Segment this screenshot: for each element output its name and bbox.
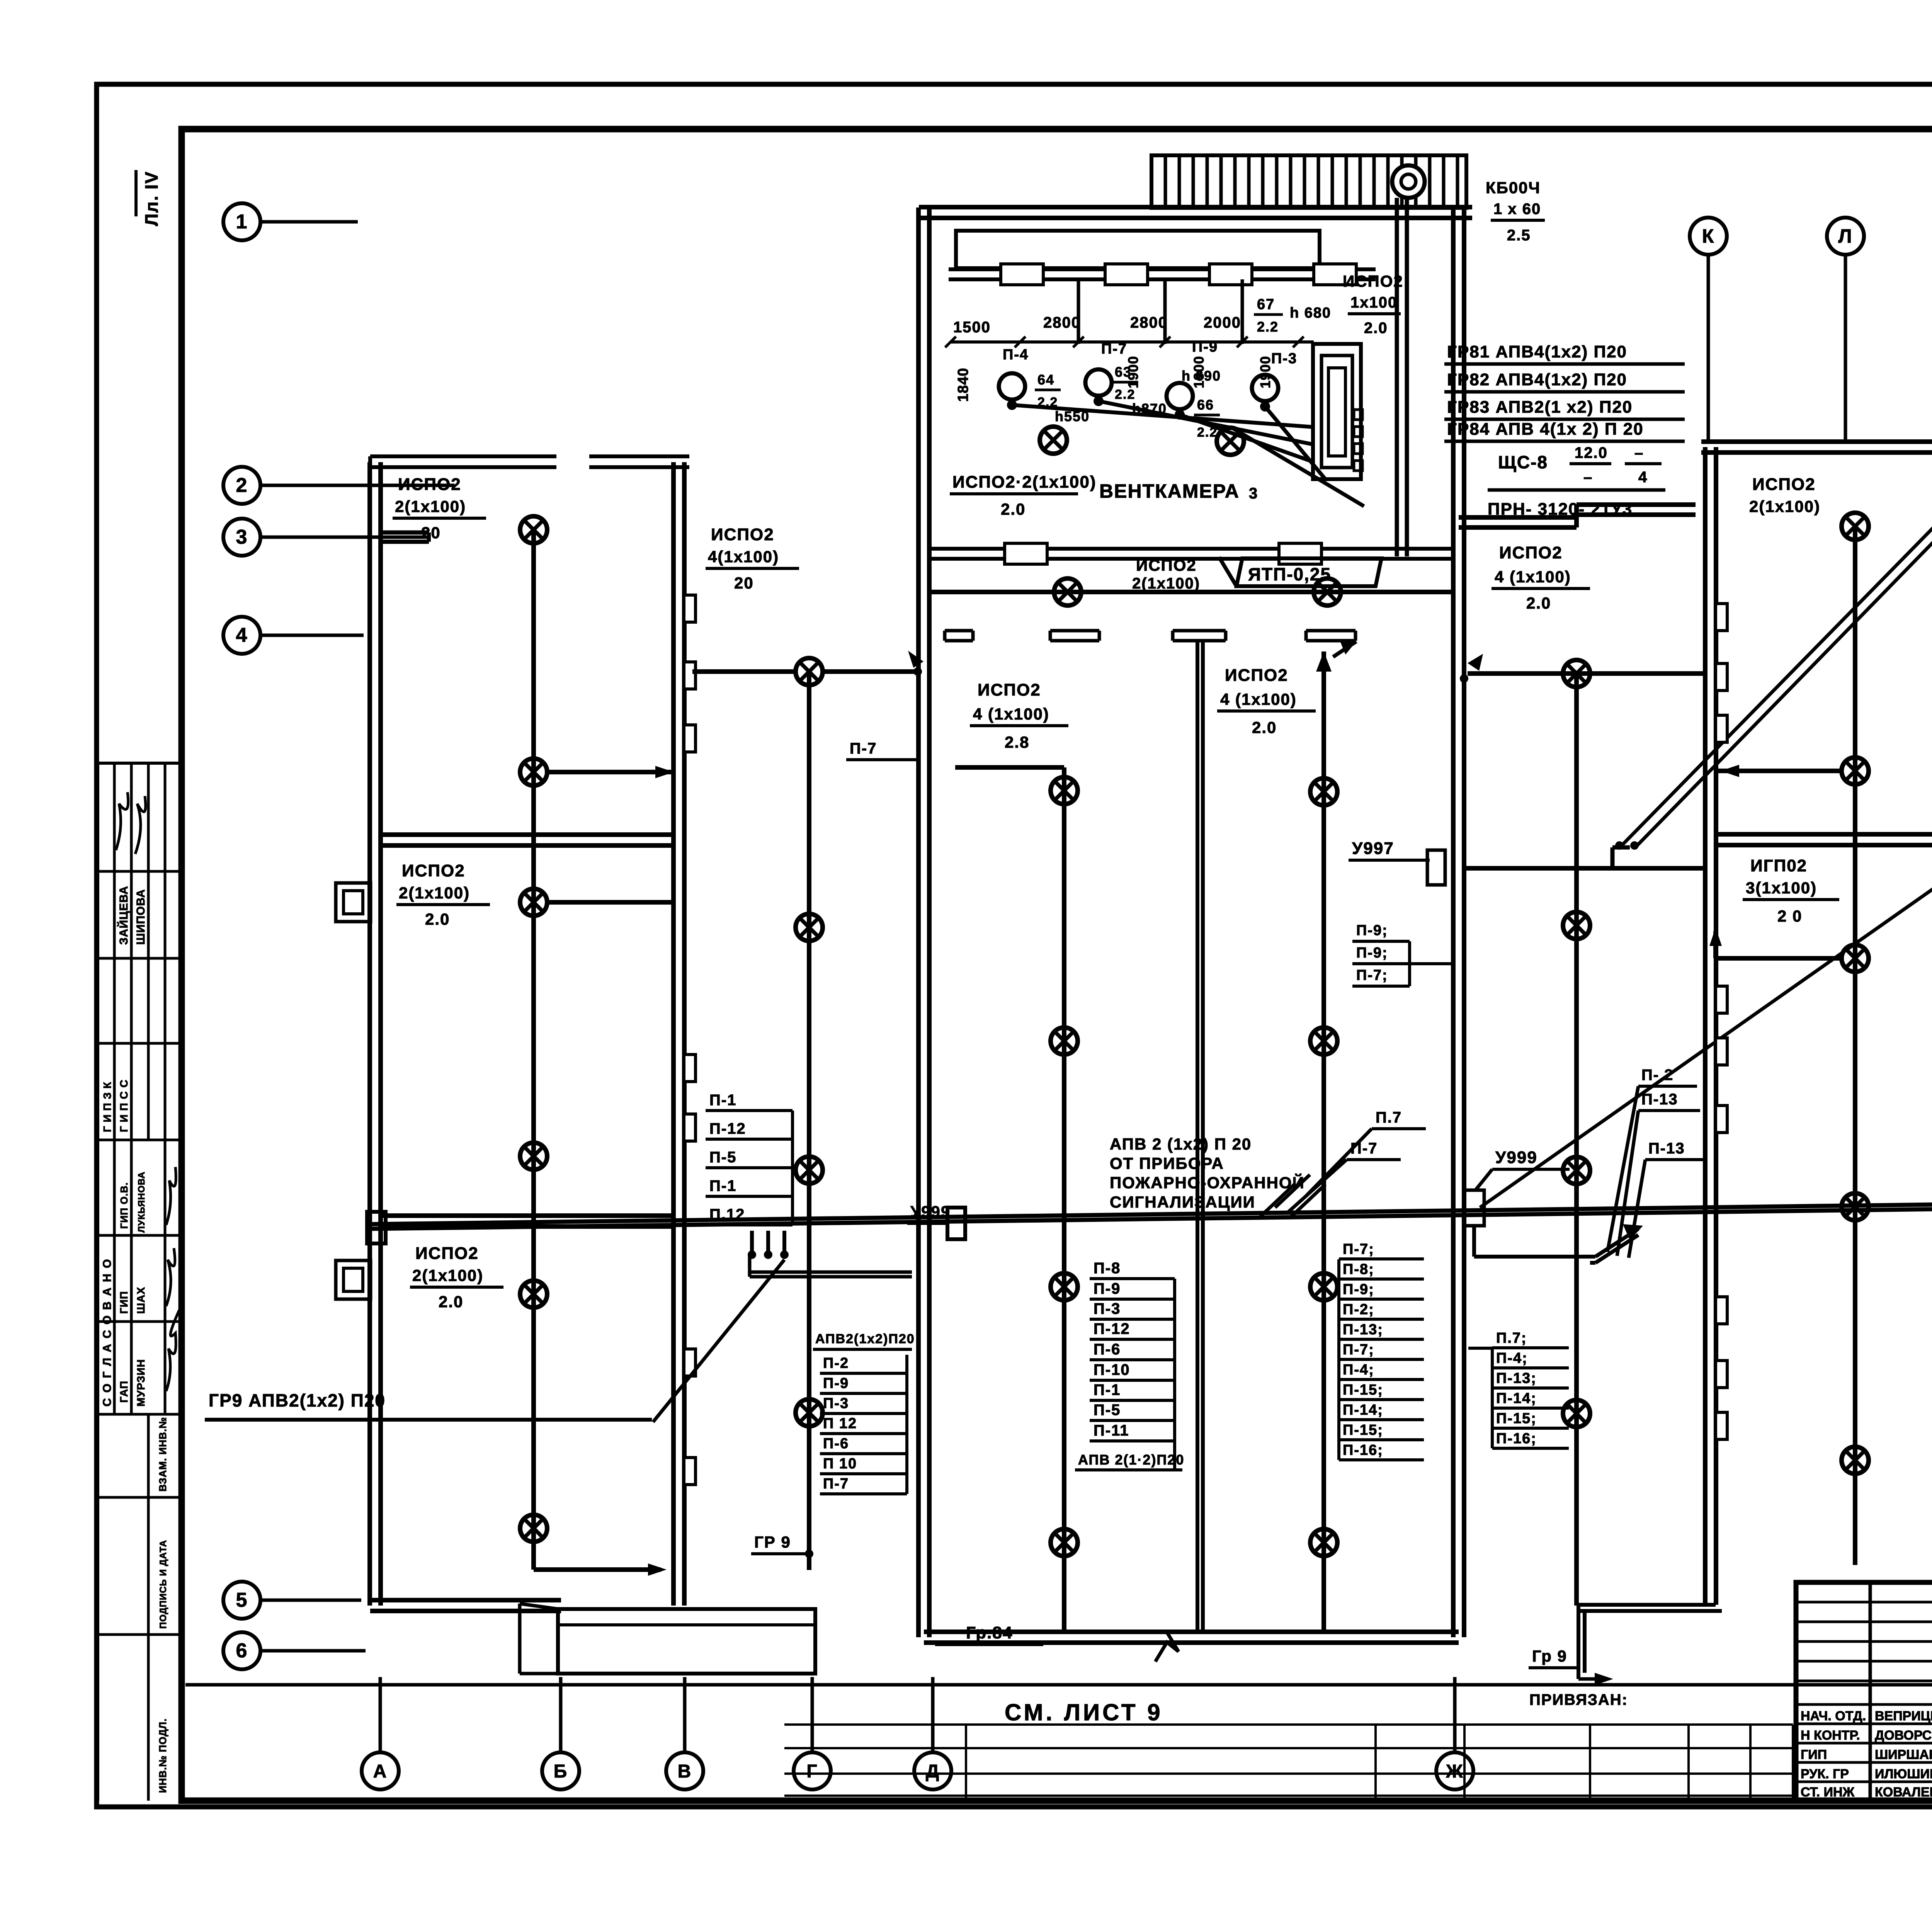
wire Гр9 diagonal west (653, 1260, 784, 1422)
centre south wall (924, 1632, 1459, 1662)
svg-text:2(1х100): 2(1х100) (1749, 497, 1820, 515)
label circuit stack centre-east (1339, 1241, 1424, 1460)
fan M2 (1085, 369, 1112, 406)
vent north wall (919, 207, 1472, 218)
svg-text:П-12: П-12 (709, 1120, 746, 1137)
svg-text:ГР9 АПВ2(1х2) П20: ГР9 АПВ2(1х2) П20 (209, 1390, 386, 1410)
axis node 6 (left) (223, 1632, 366, 1669)
svg-text:2.0: 2.0 (1364, 320, 1388, 337)
svg-text:ГР84 АПВ 4(1х 2) П 20: ГР84 АПВ 4(1х 2) П 20 (1447, 420, 1644, 439)
vent east riser (1397, 198, 1407, 556)
lamp EL22 (796, 914, 823, 941)
vent dimension line (945, 337, 1314, 347)
svg-text:ЗАЙЦЕВА: ЗАЙЦЕВА (117, 886, 130, 945)
axis node К (top) (1690, 218, 1727, 441)
svg-text:П-13: П-13 (1648, 1140, 1685, 1157)
label П-13 callout b (1629, 1140, 1705, 1258)
svg-text:4: 4 (236, 624, 248, 646)
svg-text:П-15;: П-15; (1496, 1410, 1537, 1427)
svg-text:ГАП: ГАП (118, 1381, 130, 1403)
svg-text:П-4;: П-4; (1343, 1362, 1374, 1378)
svg-text:П-7: П-7 (1350, 1140, 1378, 1157)
label ЯТП-025 (1219, 557, 1381, 586)
left wing interior wall 1 (380, 835, 674, 845)
lamp EL43 (1051, 1273, 1078, 1300)
right wing interior wall (1716, 834, 1932, 845)
wire centre top run (929, 590, 1454, 594)
dim 2800 a (1043, 314, 1081, 331)
svg-text:П-3: П-3 (1271, 350, 1297, 367)
centre mid conduit wall (1197, 641, 1203, 1632)
svg-text:АПВ2(1х2)П20: АПВ2(1х2)П20 (815, 1332, 915, 1346)
svg-text:У997: У997 (1352, 839, 1394, 858)
svg-text:П-9;: П-9; (1356, 922, 1388, 939)
lamp EL14 (520, 1143, 547, 1170)
svg-text:СИГНАЛИЗАЦИИ: СИГНАЛИЗАЦИИ (1110, 1193, 1255, 1211)
left wing west wall (370, 462, 381, 1606)
wire corridor4 mid branch (1468, 841, 1639, 868)
dim 1840 (rot) (955, 367, 971, 402)
svg-text:1500: 1500 (953, 319, 991, 336)
svg-text:У999: У999 (1495, 1148, 1537, 1167)
label ПРН-3120-21У3 (1488, 500, 1633, 519)
svg-text:П-13;: П-13; (1343, 1322, 1383, 1338)
svg-text:1: 1 (236, 211, 248, 233)
svg-text:ПРИВЯЗАН:: ПРИВЯЗАН: (1529, 1691, 1628, 1708)
svg-text:1х100: 1х100 (1350, 294, 1397, 311)
label 3 (1249, 485, 1258, 502)
wire centre west column (955, 767, 1064, 1632)
axis node 1 (left) (223, 203, 358, 240)
switchboard ЩС-8 (1313, 344, 1362, 479)
label ИСПО2 vent (950, 473, 1097, 518)
label Гр9 rw (1529, 1647, 1578, 1668)
left wing east wall (673, 462, 684, 1606)
svg-text:П-5: П-5 (709, 1149, 736, 1166)
svg-text:П-8: П-8 (1094, 1260, 1121, 1277)
svg-text:ИСПО2·2(1х100): ИСПО2·2(1х100) (952, 473, 1097, 492)
svg-text:АПВ 2(1·2)П20: АПВ 2(1·2)П20 (1078, 1452, 1184, 1468)
svg-text:4(1х100): 4(1х100) (708, 548, 779, 566)
svg-text:П-9;: П-9; (1343, 1281, 1374, 1298)
svg-text:20: 20 (734, 574, 754, 592)
svg-text:3: 3 (1249, 485, 1258, 502)
lamp EL74 (1842, 1193, 1869, 1220)
axis node 5 (left) (223, 1582, 361, 1619)
label КБ00Ч (1486, 179, 1545, 244)
label П-3 bay (1271, 350, 1297, 367)
svg-text:12.0: 12.0 (1575, 444, 1608, 461)
axis node Д (bottom) (914, 1677, 951, 1789)
fan M3 (1167, 383, 1193, 420)
svg-text:ШИРШАКОВ: ШИРШАКОВ (1875, 1747, 1932, 1762)
vent plenum duct (956, 231, 1320, 268)
svg-text:4: 4 (1638, 469, 1648, 486)
label circuit stack corridor2 (706, 1092, 793, 1225)
svg-text:П-4;: П-4; (1496, 1350, 1528, 1366)
wire left wing riser (531, 530, 536, 1570)
svg-text:Г И П З К: Г И П З К (101, 1082, 113, 1132)
svg-text:А: А (373, 1761, 388, 1782)
svg-text:П-1: П-1 (1094, 1381, 1121, 1398)
svg-text:П-13;: П-13; (1496, 1370, 1537, 1386)
axis node Б (bottom) (542, 1677, 579, 1789)
lamp EL32 (1314, 578, 1341, 606)
label stack П9 П9 П7 (1352, 922, 1454, 986)
svg-text:П-6: П-6 (1094, 1341, 1121, 1358)
axis node 4 (left) (223, 617, 364, 654)
svg-text:С О Г Л А С О В А Н О: С О Г Л А С О В А Н О (101, 1258, 114, 1407)
lamp EL31 (1054, 578, 1081, 606)
left wing interior wall 2 (380, 1216, 674, 1226)
svg-text:ИСПО2: ИСПО2 (711, 525, 774, 544)
axis node В (bottom) (666, 1677, 703, 1789)
box У999 west (947, 1208, 965, 1239)
svg-text:67: 67 (1257, 296, 1275, 313)
wire У999 triple taps (748, 1231, 912, 1277)
svg-text:П-8;: П-8; (1343, 1261, 1374, 1277)
svg-text:НАЧ. ОТД.: НАЧ. ОТД. (1801, 1709, 1866, 1723)
svg-text:h 680: h 680 (1290, 305, 1331, 321)
box У997 (1427, 850, 1445, 885)
vent inner wall with openings (949, 264, 1376, 285)
svg-text:2 0: 2 0 (1777, 907, 1802, 925)
dim 2000 (1204, 314, 1241, 331)
svg-text:В: В (678, 1761, 692, 1782)
svg-text:ИЛЮШИН: ИЛЮШИН (1875, 1767, 1932, 1781)
wire left wing bottom branch (534, 1563, 667, 1576)
label П-7 callout a (1306, 1109, 1426, 1196)
svg-text:2(1х100): 2(1х100) (1132, 575, 1200, 592)
stair block south-west (520, 1604, 815, 1674)
svg-text:2800: 2800 (1043, 314, 1081, 331)
left wing junction box 1 (336, 883, 371, 922)
svg-text:20: 20 (421, 524, 441, 542)
svg-text:П.7: П.7 (1376, 1109, 1402, 1126)
lamp EL72 (1842, 757, 1869, 784)
svg-text:ИСПО2: ИСПО2 (1752, 475, 1816, 494)
wire branch to east wall a (546, 766, 674, 778)
label Гр84 (935, 1623, 1043, 1645)
svg-text:ЩС-8: ЩС-8 (1498, 452, 1548, 472)
wire fan feeders (1012, 401, 1364, 506)
svg-text:2.8: 2.8 (1005, 733, 1029, 751)
svg-text:4 (1х100): 4 (1х100) (973, 705, 1049, 723)
svg-text:К: К (1702, 225, 1715, 247)
attachment table strip (784, 1725, 1793, 1800)
svg-text:П 12: П 12 (823, 1415, 857, 1432)
svg-text:П-16;: П-16; (1496, 1431, 1537, 1447)
svg-text:–: – (1583, 469, 1593, 486)
svg-text:2.5: 2.5 (1507, 227, 1531, 244)
svg-text:П-2;: П-2; (1343, 1301, 1374, 1318)
label СМ ЛИСТ 9 (1005, 1699, 1163, 1725)
box У999 east (1464, 1190, 1484, 1226)
svg-text:МУРЗИН: МУРЗИН (135, 1359, 147, 1407)
svg-text:Г И П С С: Г И П С С (118, 1079, 130, 1132)
fan M1 (999, 373, 1025, 410)
label circuit stack corridor4 (1468, 1330, 1569, 1448)
vent bay partition 2 (1163, 279, 1167, 344)
wire rw branch a (1716, 765, 1842, 777)
svg-text:ГР83 АПВ2(1 х2) П20: ГР83 АПВ2(1 х2) П20 (1447, 398, 1633, 417)
axis node Л (top) (1827, 218, 1864, 441)
dim h690 66 2.2 (1182, 368, 1221, 440)
label П-2 callout (1607, 1067, 1697, 1252)
lamp EL44 (1051, 1529, 1078, 1556)
svg-text:ИСПО2: ИСПО2 (978, 680, 1041, 699)
svg-text:ИСПО2: ИСПО2 (1343, 272, 1403, 290)
svg-text:ГИП: ГИП (1801, 1747, 1827, 1762)
svg-text:П.7;: П.7; (1496, 1330, 1527, 1346)
wire main run У999 (371, 1203, 1932, 1229)
label П-7 corridor2 (846, 740, 918, 760)
label circuit stack centre-west (1075, 1260, 1184, 1470)
svg-text:ИСПО2: ИСПО2 (1136, 556, 1197, 574)
svg-text:П-7: П-7 (850, 740, 877, 757)
svg-text:ИСПО2: ИСПО2 (1225, 666, 1288, 685)
wire corridor4 top branch (1460, 654, 1706, 683)
svg-text:ПОДПИСЬ И ДАТА: ПОДПИСЬ И ДАТА (158, 1540, 168, 1629)
wire corridor2 riser (807, 672, 811, 1570)
box main run west end (367, 1212, 386, 1243)
title block (1796, 1582, 1932, 1810)
svg-text:П-15;: П-15; (1343, 1422, 1383, 1438)
svg-text:КОВАЛЕВ: КОВАЛЕВ (1875, 1785, 1932, 1800)
left wing window ticks east (684, 595, 696, 1485)
right wing west wall (1705, 447, 1716, 1605)
svg-text:4 (1х100): 4 (1х100) (1220, 690, 1297, 708)
svg-text:2(1х100): 2(1х100) (395, 497, 466, 515)
wire rw branch b (1709, 927, 1842, 958)
wire corridor2 top branch (692, 651, 923, 676)
svg-text:П-16;: П-16; (1343, 1442, 1383, 1458)
lamp vent 1 (1040, 427, 1067, 454)
svg-text:64: 64 (1037, 372, 1054, 388)
dim 63 2.2 h870 (1112, 364, 1167, 417)
right wing north wall (1701, 442, 1932, 452)
svg-text:П-1: П-1 (709, 1092, 736, 1109)
left wing south wall (370, 1600, 561, 1611)
svg-text:Г: Г (806, 1761, 818, 1782)
svg-text:1 х 60: 1 х 60 (1493, 201, 1541, 218)
svg-text:СТ. ИНЖ: СТ. ИНЖ (1801, 1785, 1855, 1800)
lamp EL51 (1310, 778, 1337, 805)
lamp EL41 (1051, 777, 1078, 804)
svg-text:h 690: h 690 (1182, 368, 1221, 384)
dim 1900 rot c (1257, 356, 1273, 388)
label circuit stack АПВ2 corridor2 (813, 1332, 915, 1494)
dim 1500 (953, 319, 991, 336)
svg-text:ПРН- 3120- 21У3: ПРН- 3120- 21У3 (1488, 500, 1633, 519)
svg-text:П-7;: П-7; (1343, 1342, 1374, 1358)
label room2 ИСПО2 (396, 861, 490, 928)
svg-text:2.0: 2.0 (1526, 594, 1551, 612)
vent bay partition 3 (1241, 279, 1244, 344)
label corridor2 ИСПО2 (706, 525, 799, 592)
svg-text:ГР 9: ГР 9 (754, 1533, 791, 1551)
dim 1900 rot a (1125, 356, 1141, 388)
label ПРИВЯЗАН (1529, 1691, 1628, 1708)
inner drawing frame (182, 129, 1932, 1801)
svg-text:ИСПО2: ИСПО2 (415, 1244, 479, 1263)
vent south wall (929, 543, 1454, 564)
lamp EL71 (1842, 513, 1869, 540)
svg-text:1900: 1900 (1257, 356, 1273, 388)
svg-text:ИСПО2: ИСПО2 (402, 861, 465, 880)
lamp vent 2 (1217, 428, 1244, 455)
svg-text:Л: Л (1838, 225, 1852, 247)
svg-text:Гр.84: Гр.84 (966, 1623, 1013, 1642)
label rw ИСПО2 south (1743, 856, 1839, 925)
lamp EL42 (1051, 1027, 1078, 1055)
label ГР9 south (751, 1533, 813, 1558)
axis node 3 (left) (223, 519, 427, 556)
svg-text:63: 63 (1115, 364, 1132, 380)
svg-text:П-7;: П-7; (1343, 1241, 1374, 1257)
svg-text:КБ00Ч: КБ00Ч (1486, 179, 1541, 197)
svg-text:6: 6 (236, 1640, 248, 1662)
svg-text:ПОЖАРНО-ОХРАННОЙ: ПОЖАРНО-ОХРАННОЙ (1110, 1173, 1305, 1192)
label fire alarm text (1110, 1135, 1305, 1211)
svg-text:П-6: П-6 (823, 1436, 849, 1452)
fan M4 (1252, 375, 1278, 412)
svg-text:П-4: П-4 (1003, 347, 1029, 363)
svg-text:П-14;: П-14; (1343, 1402, 1383, 1418)
svg-text:П-12: П-12 (1094, 1320, 1130, 1337)
svg-text:П-13: П-13 (1641, 1091, 1678, 1108)
lamp EL53 (1310, 1273, 1337, 1300)
centre pier stubs (945, 631, 1355, 641)
label У999 west (907, 1203, 951, 1223)
svg-text:2000: 2000 (1204, 314, 1241, 331)
wire branch to east wall b (546, 900, 674, 905)
svg-text:ГИП О.В.: ГИП О.В. (118, 1182, 130, 1229)
svg-text:Н КОНТР.: Н КОНТР. (1801, 1728, 1860, 1743)
lamp EL61 (1563, 660, 1590, 687)
svg-text:ИНВ.№ ПОДЛ.: ИНВ.№ ПОДЛ. (157, 1718, 168, 1793)
svg-text:ИСПО2: ИСПО2 (398, 475, 461, 494)
svg-text:П-2: П-2 (823, 1355, 849, 1371)
svg-text:АПВ 2 (1х2) П 20: АПВ 2 (1х2) П 20 (1110, 1135, 1252, 1153)
lamp EL11 (520, 516, 547, 543)
svg-text:Б: Б (554, 1761, 568, 1782)
wire Гр9 diagonal east (1480, 771, 1932, 1208)
plan bottom cut line (185, 1683, 1932, 1687)
label П-7 bay (1101, 341, 1127, 357)
svg-text:П-3: П-3 (1094, 1300, 1121, 1317)
lamp EL73 (1842, 945, 1869, 972)
wire rw bottom L (1578, 1605, 1722, 1685)
label room1 ИСПО2 (393, 475, 486, 542)
svg-text:П-3: П-3 (823, 1395, 849, 1412)
lamp EL15 (520, 1281, 547, 1308)
svg-text:5: 5 (236, 1589, 248, 1611)
centre block east wall (1453, 208, 1464, 1637)
lamp EL75 (1842, 1447, 1869, 1474)
left wing junction box 2 (336, 1260, 371, 1299)
svg-text:Ж: Ж (1446, 1761, 1463, 1782)
right wing window ticks (1716, 604, 1727, 1439)
svg-text:ШИПОВА: ШИПОВА (134, 889, 147, 945)
svg-text:П-9: П-9 (1094, 1280, 1121, 1297)
svg-text:ОТ ПРИБОРА: ОТ ПРИБОРА (1110, 1154, 1224, 1172)
svg-text:П-7: П-7 (823, 1476, 849, 1492)
lamp EL12 (520, 759, 547, 786)
wire У997 branch (1464, 866, 1706, 871)
label ИСПО2 centre top (1132, 556, 1200, 592)
axis node Г (bottom) (794, 1677, 831, 1789)
svg-text:3: 3 (236, 526, 248, 548)
svg-text:ВЕПРИЦКИЙ: ВЕПРИЦКИЙ (1875, 1708, 1932, 1723)
svg-text:П-9: П-9 (823, 1375, 849, 1391)
svg-text:Гр 9: Гр 9 (1532, 1647, 1567, 1665)
svg-text:П-11: П-11 (1094, 1422, 1129, 1439)
lamp EL62 (1563, 912, 1590, 939)
label ВЕНТКАМЕРА (1099, 480, 1240, 502)
svg-text:ВЕНТКАМЕРА: ВЕНТКАМЕРА (1099, 480, 1240, 502)
svg-text:2(1х100): 2(1х100) (412, 1266, 483, 1284)
svg-text:П-9: П-9 (1192, 339, 1218, 355)
svg-text:2.2: 2.2 (1257, 319, 1279, 335)
lamp EL21 (796, 658, 823, 685)
svg-text:П-14;: П-14; (1496, 1390, 1537, 1407)
svg-text:2.0: 2.0 (1252, 718, 1277, 737)
dim 64 2.2 h550 (1035, 372, 1090, 424)
label ИСПО2 centre left room (970, 680, 1068, 751)
svg-text:2(1х100): 2(1х100) (399, 884, 470, 902)
wire right wing riser (1853, 526, 1857, 1565)
dim 2800 b (1130, 314, 1168, 331)
svg-text:СМ. ЛИСТ 9: СМ. ЛИСТ 9 (1005, 1699, 1163, 1725)
axis node 2 (left) (223, 467, 454, 504)
svg-text:П-10: П-10 (1094, 1361, 1130, 1378)
left wing north wall (370, 456, 689, 467)
wire jog below У999 east (1474, 1224, 1643, 1263)
svg-text:П-7: П-7 (1101, 341, 1127, 357)
svg-text:П-9;: П-9; (1356, 945, 1388, 961)
svg-text:2.2: 2.2 (1115, 387, 1135, 402)
svg-text:П-1: П-1 (709, 1177, 736, 1194)
lamp EL64 (1563, 1400, 1590, 1427)
svg-text:ГИП: ГИП (118, 1291, 130, 1314)
label У997 (1349, 839, 1430, 860)
vent roof grill (1151, 155, 1466, 208)
lamp EL24 (796, 1399, 823, 1426)
label ИСПО2 centre right room (1217, 666, 1316, 737)
label room3 ИСПО2 (410, 1244, 503, 1311)
lamp EL13 (520, 889, 547, 916)
vent grill fan circle (1392, 165, 1425, 198)
svg-text:Д: Д (926, 1761, 940, 1782)
svg-text:ВЗАМ. ИНВ.№: ВЗАМ. ИНВ.№ (157, 1417, 168, 1492)
label rw ИСПО2 north (1749, 475, 1820, 515)
label П-13 callout a (1617, 1091, 1700, 1256)
axis node Ж (bottom) (1436, 1677, 1473, 1789)
label Гр9 АПВ2 west (205, 1390, 652, 1420)
svg-text:–: – (1634, 444, 1644, 461)
svg-text:ШАХ: ШАХ (135, 1287, 147, 1314)
svg-text:66: 66 (1197, 397, 1214, 413)
svg-text:3(1х100): 3(1х100) (1746, 879, 1817, 897)
vent bay partition 1 (1077, 279, 1080, 344)
label group feeders ГР81-ГР84 (1444, 342, 1685, 441)
sheet label Лл IV (rotated) (136, 170, 162, 226)
svg-text:ИСПО2: ИСПО2 (1499, 543, 1563, 562)
label П-9 bay (1192, 339, 1218, 355)
centre block west wall (918, 208, 929, 1637)
svg-text:2.0: 2.0 (425, 910, 450, 928)
